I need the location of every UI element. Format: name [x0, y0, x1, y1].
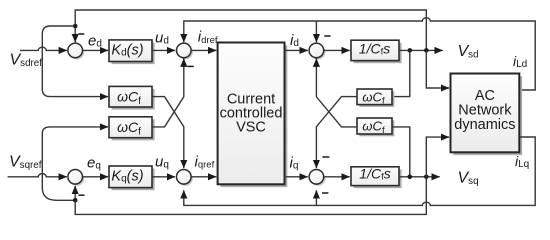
svg-text:1/Cfs: 1/Cfs [359, 166, 390, 183]
wire V_sqref input with hop [8, 174, 67, 177]
block wCf left-lower shadow [112, 119, 155, 140]
svg-text:Vsq: Vsq [458, 170, 479, 188]
summing junction S6 [70, 171, 85, 186]
svg-text:Kq(s): Kq(s) [111, 169, 143, 185]
svg-text:ud: ud [155, 29, 169, 46]
wire V_sd down into AC network [426, 50, 449, 88]
block VSC shadow [220, 45, 287, 187]
svg-text:1/Cfs: 1/Cfs [359, 41, 390, 58]
wire i_q [285, 176, 308, 178]
wire X-right lower diagonal to S3 bottom [316, 59, 357, 127]
svg-text:Vsqref: Vsqref [9, 154, 42, 172]
wire X-right upper diagonal to S4 top [316, 97, 357, 169]
node junction dot A (75,26) [73, 24, 78, 29]
svg-text:VSC: VSC [236, 119, 266, 135]
block wCf right-upper [357, 89, 392, 105]
wire rail V_sd feedback top [75, 10, 426, 50]
svg-text:id: id [290, 32, 299, 49]
wire into S6 bottom [74, 186, 76, 200]
summing junction S1 [70, 45, 85, 60]
block wCf left-lower [109, 117, 152, 138]
minus sign S3 top [324, 35, 330, 37]
wire S3 to integrator [324, 49, 350, 51]
block K_q(s) shadow [112, 169, 155, 191]
minus sign S4 top [322, 156, 329, 158]
node junction dot B (75,200) [73, 198, 78, 203]
wire i_d [285, 49, 308, 51]
wire X-left lower diagonal to S2 bottom [152, 59, 184, 127]
node dot (410,177) [408, 175, 413, 180]
wire i_Lq feedback rail with hop [184, 137, 535, 205]
svg-text:Vsdref: Vsdref [10, 52, 43, 70]
svg-text:Vsd: Vsd [458, 43, 479, 61]
wire V_sq to wCf right-lower [392, 127, 410, 177]
wire V_sdref input with hop [20, 47, 67, 50]
minus sign S4 bottom [322, 192, 328, 194]
wire i_dref [191, 49, 216, 51]
minus sign S6 bottom [79, 194, 85, 196]
wire i_Lq tap into S4 bottom [315, 190, 317, 205]
wire u_d [152, 49, 175, 51]
svg-text:iLq: iLq [515, 153, 529, 170]
summing junction S3 [311, 45, 326, 60]
block VSC Current controlled [218, 43, 285, 185]
block AC Network dynamics [451, 74, 520, 153]
wire V_sq up into AC network [426, 137, 449, 177]
svg-text:idref: idref [198, 29, 218, 46]
wire into summer S1 top [74, 26, 76, 42]
wire i_qref [191, 176, 216, 178]
wire e_q [83, 176, 109, 178]
svg-text:uq: uq [155, 154, 169, 171]
node dot (426,50) [424, 48, 429, 53]
minus sign S2 bottom [187, 65, 193, 67]
svg-text:iqref: iqref [195, 154, 215, 171]
block wCf right-upper shadow [359, 91, 394, 107]
wire S4 to integrator q [324, 176, 350, 178]
block K_d(s) [109, 40, 152, 62]
wire rail i_Ld feedforward with hop [184, 18, 535, 90]
node dot (426,177) [424, 175, 429, 180]
block AC Network shadow [453, 76, 522, 155]
block K_d(s) shadow [112, 43, 155, 65]
summing junction S5 [178, 171, 193, 186]
wire V_sq feedback bottom rail [75, 177, 426, 215]
block wCf right-lower [357, 118, 392, 134]
node dot (410,50) [408, 48, 413, 53]
svg-text:ωCf: ωCf [362, 119, 385, 136]
block K_q(s) [109, 166, 152, 188]
summing junction S4 [311, 171, 326, 186]
wire V_sd to wCf upper-right [392, 50, 410, 96]
svg-text:iLd: iLd [513, 53, 527, 70]
block integrator 1/C_f s (q) [351, 167, 399, 186]
wire i_Ld tap into S3 top [315, 21, 317, 42]
wire V_sq to wCf lower-left [42, 127, 108, 200]
svg-text:ωCf: ωCf [117, 119, 141, 138]
svg-text:ωCf: ωCf [117, 89, 141, 108]
minus sign S1 top [78, 33, 84, 35]
wire e_d [83, 49, 109, 51]
block 1/Cf_s d shadow [354, 43, 402, 63]
summing junction S2 [178, 45, 193, 60]
block 1/Cf_s q shadow [354, 169, 402, 188]
wire V_sd output arrow [399, 49, 443, 51]
block wCf right-lower shadow [359, 120, 394, 136]
wire u_q [152, 176, 175, 178]
wire X-left upper diagonal to S5 top [152, 97, 184, 169]
block wCf left-upper shadow [112, 89, 155, 110]
svg-text:ed: ed [88, 32, 102, 49]
svg-text:iq: iq [290, 155, 299, 172]
block integrator 1/C_f s (d) [351, 40, 399, 60]
svg-text:eq: eq [87, 155, 101, 172]
wire V_sq output arrow [399, 176, 440, 178]
svg-text:Kd(s): Kd(s) [111, 43, 143, 59]
svg-text:dynamics: dynamics [454, 117, 515, 133]
svg-text:ωCf: ωCf [362, 89, 385, 106]
wire V_sd to wCf upper-left [42, 26, 108, 97]
block wCf left-upper [109, 86, 152, 107]
